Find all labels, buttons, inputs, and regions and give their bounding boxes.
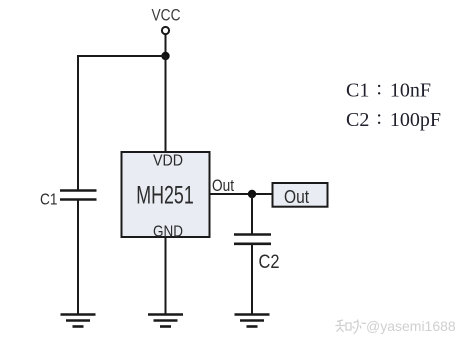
capacitor C2: [234, 235, 271, 244]
svg-text:MH251: MH251: [136, 182, 194, 210]
svg-text:GND: GND: [153, 224, 183, 241]
wire C1 to ground: [77, 200, 79, 315]
ground under C2: [235, 315, 270, 327]
ground under IC: [148, 315, 183, 327]
junction node on Out net: [248, 190, 256, 198]
svg-text:C2:100pF: C2:100pF: [346, 107, 441, 131]
wire Out net to C2: [251, 194, 253, 235]
wire VCC terminal to junction: [165, 34, 167, 56]
svg-text:@yasemi1688: @yasemi1688: [366, 318, 456, 334]
ground under C1: [61, 315, 96, 327]
wire IC Out to port: [210, 193, 273, 195]
wire junction to IC VDD: [165, 56, 167, 152]
svg-text:VCC: VCC: [152, 6, 181, 25]
wire C2 to ground: [251, 244, 253, 315]
output port box Out: [273, 183, 328, 207]
wire top horizontal: [78, 55, 166, 57]
watermark zhihu logo glyphs: [336, 320, 367, 334]
svg-text:Out: Out: [284, 187, 309, 207]
VCC terminal circle: [162, 27, 169, 34]
svg-text:C2: C2: [259, 252, 280, 273]
svg-text:Out: Out: [212, 176, 234, 195]
wire IC GND to ground: [165, 237, 167, 315]
svg-text:VDD: VDD: [153, 153, 183, 170]
svg-text:C1:10nF: C1:10nF: [346, 78, 431, 102]
svg-text:C1: C1: [40, 192, 58, 209]
junction node: [161, 52, 169, 60]
wire left vertical to C1: [77, 55, 79, 190]
IC MH251: [122, 152, 210, 237]
capacitor C1: [60, 191, 97, 200]
